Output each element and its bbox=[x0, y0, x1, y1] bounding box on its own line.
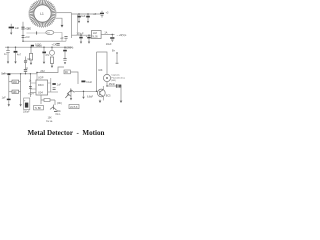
capacitor C10 blob on y14 rail bbox=[87, 14, 89, 16]
regulator U2 box LM78L05 bbox=[92, 31, 102, 39]
svg-text:1x: 1x bbox=[29, 80, 32, 82]
svg-text:+: + bbox=[24, 100, 26, 103]
capacitor marks x55 bbox=[54, 110, 57, 112]
ground arrow x8 bbox=[7, 62, 9, 64]
speaker piezo circle bbox=[103, 74, 110, 81]
ground arrow x44 bbox=[43, 62, 45, 64]
wire rail y41 bbox=[23, 40, 66, 42]
wire base feed vertical bbox=[96, 52, 98, 91]
svg-text:10K: 10K bbox=[98, 69, 103, 72]
capacitor C9 blob on y14 rail bbox=[78, 14, 80, 16]
svg-text:Piezoelectrica: Piezoelectrica bbox=[111, 76, 125, 79]
resistor R3 box under Q2 bbox=[50, 57, 53, 63]
transistor Q2 circle branch x52 bbox=[51, 47, 53, 50]
wire audio top corner bbox=[97, 52, 108, 74]
wire C13 to ground drop bbox=[119, 86, 121, 101]
resistor box on y100 bbox=[44, 99, 50, 102]
svg-text:+C4: +C4 bbox=[52, 43, 57, 47]
wire feedback chain y33 bbox=[27, 32, 47, 34]
coil L1 toroid inner circle bbox=[34, 5, 51, 22]
transistor pair diagonals bbox=[67, 88, 74, 94]
junction dots bbox=[7, 13, 117, 92]
wire L1 second lead bbox=[56, 18, 63, 25]
svg-text:DKO: DKO bbox=[38, 83, 44, 87]
svg-text:+C2: +C2 bbox=[25, 26, 30, 30]
arrow down at x62 bbox=[61, 25, 64, 28]
capacitor plates x66 upper bbox=[64, 36, 67, 38]
resistor R2 box branch x31 bbox=[30, 47, 32, 53]
ground arrow under C1 bbox=[10, 33, 12, 35]
ground arrow x31 bbox=[30, 63, 32, 65]
capacitor 1uF bottom left bbox=[7, 98, 11, 100]
svg-text:DC: DC bbox=[65, 72, 69, 74]
transistor Q5 output circle bbox=[97, 89, 105, 97]
capacitor C12 at output bbox=[111, 35, 113, 37]
wire DCC to right bbox=[70, 72, 78, 84]
svg-text:Capsula: Capsula bbox=[111, 75, 120, 77]
speaker dot bbox=[106, 77, 108, 79]
Q5 base bar bbox=[99, 91, 101, 95]
amplifier box LM386 bbox=[69, 105, 79, 109]
opamp right pin vertical bbox=[48, 78, 51, 92]
svg-text:10K: 10K bbox=[48, 118, 53, 120]
small mark on feedback wire bbox=[36, 31, 38, 34]
svg-text:47n: 47n bbox=[45, 54, 50, 57]
capacitor C1 lead down bbox=[10, 29, 12, 33]
switch box Tx bbox=[34, 106, 44, 110]
capacitor C4 between rails bbox=[56, 43, 59, 45]
svg-text:+3: +3 bbox=[106, 11, 109, 14]
capacitor C6 blob branch x15.5 bbox=[15, 47, 17, 50]
pot wiper circle bbox=[24, 60, 27, 63]
wire vertical drop x71.5 bbox=[71, 13, 73, 38]
svg-text:.1uF: .1uF bbox=[56, 84, 61, 86]
Q5 emitter wire down bbox=[102, 96, 104, 100]
coil L1 toroid outer scallop circle bbox=[30, 1, 56, 27]
capacitor blob on rail y74 bbox=[7, 73, 10, 75]
ground arrow x121 bbox=[120, 101, 123, 103]
svg-text:2K2: 2K2 bbox=[40, 70, 45, 73]
wire to rail y74 bbox=[25, 71, 27, 73]
transistor diagonals bottom-mid bbox=[50, 105, 56, 110]
svg-text:BC5: BC5 bbox=[106, 95, 111, 98]
capacitor C11 at end of y14 rail bbox=[101, 11, 103, 13]
svg-text:1uF: 1uF bbox=[15, 26, 20, 30]
capacitor plates on x65 bbox=[63, 58, 66, 60]
capacitor C2 plates on x23 bbox=[21, 27, 24, 29]
input vertical x30 to opamp bbox=[29, 74, 31, 97]
wire rail y47 bbox=[5, 46, 72, 48]
svg-text:+D: +D bbox=[60, 37, 63, 40]
capacitor marks right of opamp lower bbox=[53, 88, 56, 90]
svg-text:Tx BK: Tx BK bbox=[35, 107, 42, 110]
svg-text:UOP: UOP bbox=[38, 77, 44, 80]
capacitor C7 plates on x25.5 bbox=[24, 69, 27, 71]
svg-text:.1uF: .1uF bbox=[81, 15, 86, 18]
svg-text:0.1uF: 0.1uF bbox=[86, 82, 92, 84]
coil L1 toroid winding hatch bbox=[30, 1, 56, 27]
wire opamp top to feedback bbox=[36, 73, 38, 81]
Q5 collector wire to y86 bbox=[102, 86, 104, 90]
wire bypass drop x77.5 bbox=[77, 14, 79, 35]
svg-text:+C14: +C14 bbox=[28, 93, 34, 95]
svg-text:+C3: +C3 bbox=[25, 35, 30, 39]
capacitor on y35 rail right bbox=[88, 35, 90, 36]
wire x41 down bbox=[40, 100, 42, 104]
capacitor C1 bar top-left bbox=[9, 27, 14, 29]
capacitor on y35 rail left bbox=[80, 35, 82, 36]
capacitor C13 45mF bbox=[116, 84, 118, 88]
resistor R1 ellipse bubble bbox=[46, 30, 54, 34]
ground arrow x8 bottom bbox=[8, 104, 10, 106]
capacitor C5 left of rail branch x8 bbox=[6, 47, 10, 61]
svg-text:1uF: 1uF bbox=[2, 97, 7, 100]
Q5 collector stroke bbox=[100, 90, 104, 97]
wire regulator input bbox=[72, 34, 92, 36]
capacitor C8 branch x44 bbox=[43, 47, 45, 51]
ladder right vertical x21 bbox=[20, 74, 22, 105]
wire drop x83.5 to ground bbox=[83, 91, 85, 96]
wire opamp lower right bbox=[48, 91, 58, 93]
ground arrow bbox=[88, 42, 90, 44]
wire vertical x23 from coil area down bbox=[22, 22, 24, 41]
transistor Q3 branch x65 bbox=[64, 47, 66, 49]
svg-text:(3904): (3904) bbox=[66, 46, 73, 49]
svg-text:→+9(V)s: →+9(V)s bbox=[116, 33, 127, 37]
wire top rail from L1 to regulator drop bbox=[56, 12, 71, 14]
capacitor C1 lead up bbox=[10, 24, 12, 27]
svg-text:L1: L1 bbox=[40, 12, 44, 16]
electrolytic body blob bbox=[25, 103, 28, 108]
junction dot bbox=[112, 34, 113, 35]
svg-text:1A: 1A bbox=[104, 32, 107, 35]
wire drop x71 to ground bbox=[70, 91, 72, 98]
svg-text:100n: 100n bbox=[56, 111, 62, 113]
wire speaker bottom bbox=[107, 82, 116, 86]
svg-text:U04: U04 bbox=[38, 91, 43, 95]
svg-text:(2SC): (2SC) bbox=[36, 45, 42, 48]
svg-text:6,8uF: 6,8uF bbox=[87, 95, 94, 98]
wire x66 cap to rail41 bbox=[65, 39, 67, 42]
timer DCC box bbox=[64, 70, 70, 74]
svg-text:(NC): (NC) bbox=[57, 103, 62, 105]
svg-text:CnF: CnF bbox=[1, 73, 6, 76]
svg-text:1n: 1n bbox=[4, 53, 7, 56]
ladder left vertical x8 bbox=[8, 75, 10, 99]
svg-text:5L05: 5L05 bbox=[92, 36, 98, 39]
svg-text:10K: 10K bbox=[13, 92, 18, 94]
ground arrow x83.5 bbox=[82, 97, 84, 99]
tick at bottom of x117 bbox=[116, 62, 119, 64]
capacitor blob right of opamp bbox=[52, 83, 55, 85]
svg-text:+C: +C bbox=[25, 67, 28, 70]
ground arrow x52 bbox=[51, 66, 53, 68]
svg-text:LM 5.8: LM 5.8 bbox=[70, 106, 78, 109]
wire to ground x8 bbox=[8, 100, 10, 104]
wire regulator output bbox=[101, 34, 114, 36]
svg-text:1K0: 1K0 bbox=[13, 82, 18, 84]
wire from R1 to x62 bbox=[54, 33, 62, 42]
bypass rail y14 bbox=[72, 13, 101, 15]
wire top feedback y72.5 bbox=[37, 67, 64, 73]
opamp left pins bbox=[30, 83, 36, 93]
svg-text:4n7: 4n7 bbox=[17, 54, 22, 57]
ground arrow C10 bbox=[87, 21, 89, 23]
ground arrow C9 bbox=[78, 21, 80, 23]
wire supply drop x117 bbox=[116, 53, 118, 63]
ground arrow x71 bbox=[70, 98, 72, 100]
svg-text:45mF: 45mF bbox=[109, 83, 116, 86]
svg-text:Fix L: Fix L bbox=[56, 114, 62, 116]
capacitor C3 plates on x23 lower bbox=[22, 36, 25, 38]
resistor R4 box ladder top bbox=[9, 81, 12, 83]
ground arrow x65 bbox=[64, 62, 66, 64]
svg-text:10uF: 10uF bbox=[106, 43, 112, 46]
svg-text:Metal Detector - Motion: Metal Detector - Motion bbox=[27, 129, 104, 137]
wire y91.3 to base bbox=[74, 90, 96, 92]
transistor Q1 blob on rail bbox=[31, 45, 34, 47]
ground arrow bbox=[80, 42, 82, 44]
wire y100 bottom-mid bbox=[41, 95, 55, 100]
capacitor blob 0.1uF mid bbox=[81, 80, 85, 82]
potentiometer branch x25.5 bbox=[25, 57, 27, 69]
capacitor marks on x30 bbox=[29, 87, 32, 89]
svg-text:LM: LM bbox=[93, 31, 97, 35]
ground arrow x21 bottom bbox=[19, 104, 21, 106]
svg-text:100uF: 100uF bbox=[23, 112, 30, 114]
svg-text:Fe La: Fe La bbox=[46, 121, 53, 123]
electrolytic cap box bottom-left bbox=[24, 98, 30, 110]
ground arrow x15.5 bbox=[14, 62, 16, 64]
ground arrow under Q5 bbox=[99, 101, 102, 103]
resistor R5 box ladder bottom bbox=[9, 91, 12, 93]
opamp U1 box bbox=[36, 80, 48, 95]
wire x55 down bbox=[54, 100, 56, 105]
svg-text:B+: B+ bbox=[112, 50, 116, 53]
left rail y74 bbox=[2, 73, 37, 75]
